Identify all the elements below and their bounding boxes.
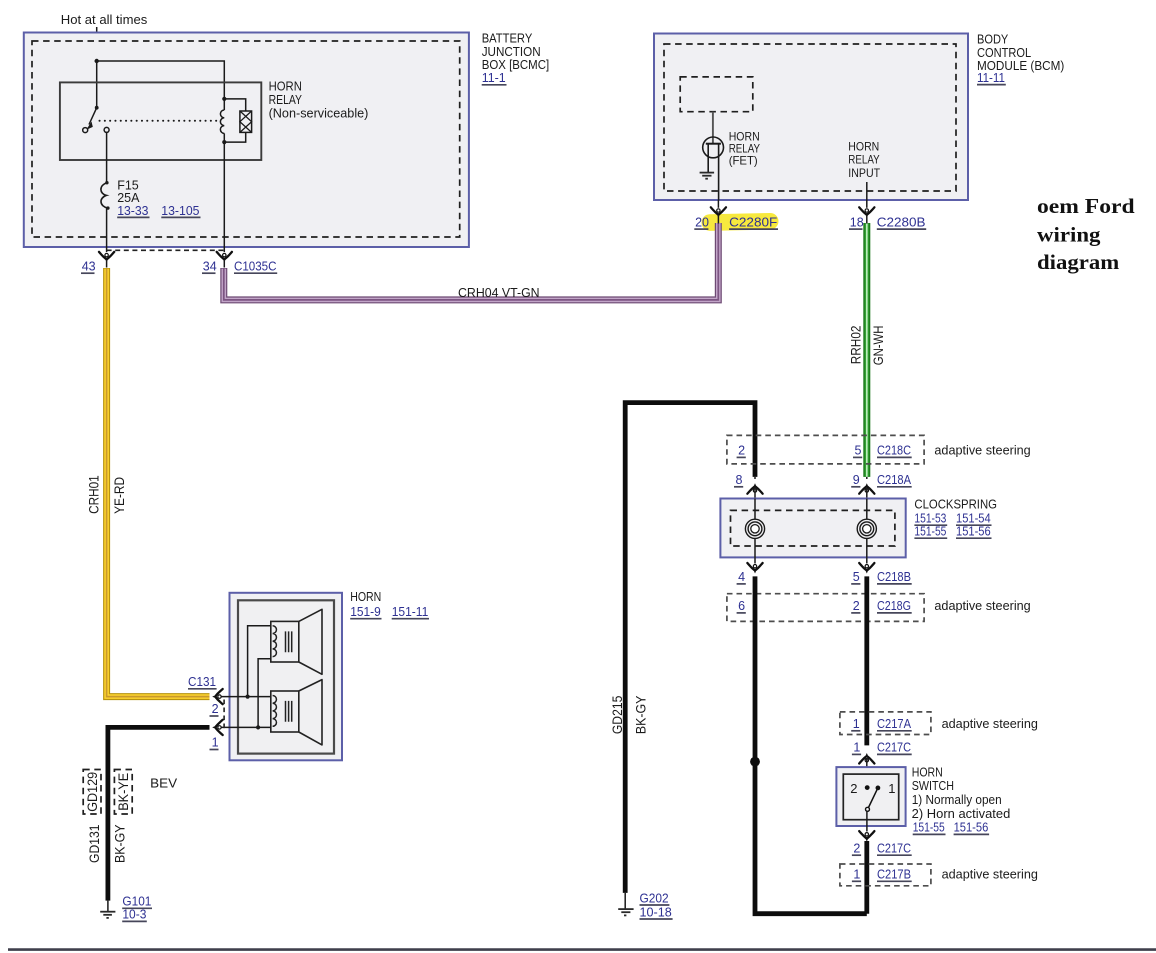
wire RRH02 GN-WH (green) BCM pin 18 to clockspring pin 9 <box>863 223 870 477</box>
battery junction box inner dashed border <box>32 41 460 237</box>
svg-text:RELAY: RELAY <box>269 93 303 107</box>
svg-text:1: 1 <box>853 741 860 755</box>
svg-text:HORN: HORN <box>848 139 879 153</box>
horn switch outer box <box>836 767 905 826</box>
pin label 43 <box>81 260 96 274</box>
pin label 2 (C218G) <box>851 599 860 613</box>
pin label 5 (C218B) <box>851 570 860 584</box>
label CLOCKSPRING with links <box>914 498 997 539</box>
pin label 2 (C218C) <box>737 444 746 458</box>
node junction dot on feed <box>95 59 99 63</box>
pin label 1 (C217C top) <box>852 741 861 755</box>
wire label CRH01 <box>87 475 102 513</box>
label adaptive steering (C218C) <box>934 444 1030 458</box>
svg-text:(FET): (FET) <box>729 154 758 168</box>
connector label C217C top <box>877 741 912 755</box>
splice GD129 dashed box <box>83 770 101 815</box>
pin label 6 <box>737 599 746 613</box>
wire: switch output down to fuse <box>106 132 108 182</box>
relay switch lever with arrowhead <box>86 108 97 130</box>
connector C218C adaptive steering dashed box <box>727 435 924 464</box>
label: HORN SWITCH description <box>912 765 1011 834</box>
label: HORN RELAY INPUT <box>848 139 880 179</box>
svg-text:10-18: 10-18 <box>640 905 672 919</box>
horn switch pin 2 arrow <box>859 831 874 842</box>
ground (FET source) inside BCM <box>700 173 715 179</box>
pin label 9 <box>851 473 860 487</box>
relay switch pivot dot <box>95 106 99 110</box>
svg-text:C1035C: C1035C <box>234 260 277 274</box>
svg-text:GD129: GD129 <box>85 772 100 812</box>
pin 18 arrow <box>859 207 874 223</box>
svg-text:2: 2 <box>853 841 860 855</box>
ground G101 symbol <box>100 901 115 918</box>
svg-text:G101: G101 <box>122 895 151 909</box>
pin 34 arrow <box>217 252 232 268</box>
horn pin 1 arrow <box>212 720 223 735</box>
wire label CRH04 VT-GN <box>458 286 540 300</box>
wire CRH04 VT-GN (violet) pin 34 to BCM pin 20 <box>224 223 719 300</box>
wire: coil to BJB bottom pin 34 <box>223 142 225 252</box>
ground label G101 10-3 <box>122 895 152 922</box>
connector label C217B <box>877 867 912 881</box>
pin 20 arrow <box>711 207 726 223</box>
label: BODY CONTROL MODULE (BCM) 11-11 <box>977 33 1064 85</box>
svg-text:Hot at all times: Hot at all times <box>61 13 148 27</box>
svg-text:C218C: C218C <box>877 444 911 458</box>
svg-text:BODY: BODY <box>977 33 1009 47</box>
svg-text:BK-GY: BK-GY <box>112 824 127 863</box>
svg-text:6: 6 <box>738 599 745 613</box>
connector C217A adaptive steering dashed box <box>840 712 931 735</box>
svg-text:C218B: C218B <box>877 570 911 584</box>
relay switch output contact <box>104 127 109 132</box>
svg-text:1: 1 <box>888 781 895 796</box>
pin label 18 <box>849 215 864 229</box>
svg-text:151-55: 151-55 <box>913 821 945 835</box>
wire GD215 BK-GY top loop (black) <box>625 403 755 893</box>
svg-text:20: 20 <box>695 215 709 229</box>
svg-text:9: 9 <box>853 473 860 487</box>
svg-text:151-56: 151-56 <box>954 821 989 835</box>
wire: switch pin 2 stub to C217C <box>864 841 869 914</box>
horn switch SW1 contacts and lever <box>865 785 881 811</box>
horn switch pin 1 arrow <box>859 753 874 788</box>
svg-text:BK-YE: BK-YE <box>116 773 131 811</box>
svg-text:INPUT: INPUT <box>848 166 880 180</box>
connector C217B adaptive steering dashed box <box>840 864 931 886</box>
svg-text:BOX [BCMC]: BOX [BCMC] <box>482 58 550 72</box>
connector label C217C bottom <box>877 841 912 855</box>
ground G202 symbol <box>618 893 633 916</box>
horn switch inner box <box>843 774 898 820</box>
relay actuation dotted link <box>100 120 218 122</box>
svg-text:diagram: diagram <box>1037 250 1119 274</box>
svg-text:adaptive steering: adaptive steering <box>942 867 1038 881</box>
ground label G202 10-18 <box>640 891 673 919</box>
label: BATTERY JUNCTION BOX [BCMC] 11-1 <box>482 32 550 86</box>
relay coil L1 <box>220 97 226 144</box>
connector label C2280B <box>877 215 926 229</box>
svg-text:C2280F: C2280F <box>729 215 778 229</box>
svg-text:151-55: 151-55 <box>914 524 946 538</box>
wire: feed to relay coil branch <box>97 61 225 99</box>
wire: fuse to BJB bottom pin 43 <box>106 208 108 252</box>
svg-text:adaptive steering: adaptive steering <box>934 444 1030 458</box>
svg-text:4: 4 <box>738 570 745 584</box>
svg-text:RRH02: RRH02 <box>849 326 864 365</box>
switch terminal label 1 <box>888 781 895 796</box>
clockspring outer box <box>720 499 905 558</box>
connector label C217A <box>877 717 912 731</box>
svg-text:C217C: C217C <box>877 741 911 755</box>
svg-text:C217A: C217A <box>877 717 912 731</box>
clockspring pin 4 arrow <box>747 557 762 573</box>
horn assembly inner box <box>238 600 334 753</box>
svg-text:(Non-serviceable): (Non-serviceable) <box>269 107 369 121</box>
connector label C218B <box>877 570 912 584</box>
svg-text:2: 2 <box>850 781 857 796</box>
horn H2 (bottom) cone <box>299 680 322 745</box>
transistor HORN RELAY FET U1 <box>703 137 724 200</box>
wire CRH01 YE-RD (yellow) pin 43 to horn pin 2 <box>107 268 210 697</box>
svg-text:HORN: HORN <box>912 765 943 779</box>
wire label RRH02 <box>849 326 864 365</box>
svg-text:1: 1 <box>853 867 860 881</box>
label: HORN 151-9 151-11 <box>350 590 429 619</box>
horn H1 (top) cone <box>299 609 322 674</box>
wire label GD215 <box>610 696 625 735</box>
splice BK-YE dashed box <box>114 770 132 815</box>
relay suppressor resistor <box>224 99 251 142</box>
connector C218G adaptive steering dashed box <box>727 594 924 622</box>
svg-text:2) Horn activated: 2) Horn activated <box>912 807 1011 821</box>
svg-text:wiring: wiring <box>1037 223 1101 247</box>
svg-text:BK-GY: BK-GY <box>634 696 649 735</box>
body control module outer box <box>654 34 968 201</box>
svg-text:C217B: C217B <box>877 867 911 881</box>
wire: clockspring pin 5 down to horn switch (black) <box>864 576 869 745</box>
svg-text:151-56: 151-56 <box>956 524 991 538</box>
svg-text:18: 18 <box>850 215 864 229</box>
svg-text:G202: G202 <box>640 891 669 905</box>
svg-text:8: 8 <box>736 473 743 487</box>
wire through clockspring left <box>754 499 756 558</box>
svg-text:C131: C131 <box>188 675 216 689</box>
junction dot on pin 2 wire <box>246 695 250 699</box>
connector label C1035C <box>234 260 277 274</box>
wire GD131 BK-GY horn pin 1 to ground G101 (black) <box>108 727 210 900</box>
pin label 1 (C217A) <box>851 717 860 731</box>
svg-text:HORN: HORN <box>350 590 381 604</box>
wire label BK-GY <box>634 696 649 735</box>
svg-text:C2280B: C2280B <box>877 215 926 229</box>
splice GD129 label <box>85 772 100 812</box>
connector label C218C <box>877 444 912 458</box>
junction dot on pin 1 wire <box>256 725 260 729</box>
svg-text:RELAY: RELAY <box>848 153 879 167</box>
svg-text:2: 2 <box>738 444 745 458</box>
pin label 5 (C218C) <box>853 444 862 458</box>
horn pin 2 label <box>210 702 219 716</box>
svg-text:151-53: 151-53 <box>914 511 946 525</box>
svg-text:JUNCTION: JUNCTION <box>482 45 541 59</box>
horn H1 (top) coil box <box>271 621 299 662</box>
label adaptive steering (C217B) <box>942 867 1038 881</box>
svg-text:2: 2 <box>212 702 219 716</box>
label: HORN RELAY (Non-serviceable) <box>269 80 369 121</box>
label: F15 25A 13-33 13-105 <box>117 178 200 217</box>
relay switch fixed contact left <box>83 128 88 133</box>
wire: horn relay input to pin 18 <box>866 182 868 200</box>
BCM internal dashed block <box>680 77 753 112</box>
connector label C218G <box>877 599 912 613</box>
svg-text:151-9: 151-9 <box>350 605 381 619</box>
wire label GD131 <box>87 824 102 863</box>
wire: horn pin 2 internal feed <box>221 696 271 698</box>
pin 43 arrow <box>99 252 114 268</box>
pin label 1 (C217B) <box>852 867 861 881</box>
label adaptive steering (C217A) <box>942 717 1038 731</box>
wire label GN-WH <box>871 326 886 366</box>
svg-text:adaptive steering: adaptive steering <box>934 599 1030 613</box>
switch terminal label 2 <box>850 781 857 796</box>
svg-text:5: 5 <box>853 570 860 584</box>
clockspring pin 8 arrow <box>747 477 762 499</box>
horn assembly outer box <box>230 593 343 761</box>
svg-text:11-11: 11-11 <box>977 71 1005 85</box>
label adaptive steering (C218G) <box>934 599 1030 613</box>
svg-text:GD131: GD131 <box>87 824 102 863</box>
svg-text:151-11: 151-11 <box>392 605 429 619</box>
wire: horn pin 1 internal feed <box>221 726 271 728</box>
svg-text:C218G: C218G <box>877 599 911 613</box>
wire: BCM pin 18 stub <box>866 200 868 208</box>
title: oem Ford wiring diagram <box>1037 194 1135 274</box>
svg-text:C218A: C218A <box>877 473 912 487</box>
svg-text:1: 1 <box>853 717 860 731</box>
clockspring pin 5 arrow <box>859 557 874 573</box>
wire: top horn terminal B link <box>258 659 271 728</box>
wire: FET drain to pin 20 <box>717 200 719 208</box>
svg-text:13-33: 13-33 <box>117 204 148 218</box>
connector label C2280F <box>729 215 778 229</box>
svg-text:GN-WH: GN-WH <box>871 326 886 366</box>
svg-text:2: 2 <box>853 599 860 613</box>
svg-text:10-3: 10-3 <box>122 908 146 922</box>
body control module inner dashed border <box>664 44 956 191</box>
node: Hot at all times label <box>61 13 148 27</box>
clockspring inner dashed border <box>731 510 895 546</box>
svg-text:CRH04 VT-GN: CRH04 VT-GN <box>458 286 540 300</box>
svg-text:43: 43 <box>82 260 96 274</box>
highlight marker over 20 C2280F <box>701 213 778 231</box>
footer separator line <box>8 948 1156 951</box>
svg-text:BATTERY: BATTERY <box>482 32 533 46</box>
horn relay box <box>60 82 261 160</box>
clockspring coil symbol left <box>745 519 764 538</box>
svg-text:HORN: HORN <box>269 80 302 94</box>
pin label 34 <box>202 260 217 274</box>
wire: gate feed to FET <box>712 112 714 144</box>
svg-text:BEV: BEV <box>150 777 178 791</box>
clockspring pin 9 arrow <box>859 477 874 499</box>
horn pin 2 arrow <box>212 689 223 704</box>
svg-text:SWITCH: SWITCH <box>912 779 954 793</box>
horn pin 1 label <box>210 736 219 750</box>
svg-text:11-1: 11-1 <box>482 71 506 85</box>
battery junction box outer <box>24 33 469 248</box>
wire label BK-GY <box>112 824 127 863</box>
fuse F15 <box>101 181 110 210</box>
svg-text:1) Normally open: 1) Normally open <box>912 793 1002 807</box>
svg-text:34: 34 <box>203 260 217 274</box>
horn H2 (bottom) coil box <box>271 691 299 732</box>
wire: switch moving contact down <box>866 811 868 831</box>
connector label C218A <box>877 473 912 487</box>
wire: top horn terminal A link <box>248 626 271 697</box>
wire: feed down to relay switch <box>96 61 98 108</box>
splice junction dot on pin 4 wire <box>750 757 760 767</box>
splice BK-YE label <box>116 773 131 811</box>
svg-text:YE-RD: YE-RD <box>112 477 127 514</box>
label: HORN RELAY (FET) <box>729 130 760 168</box>
pin label 8 <box>734 473 743 487</box>
clockspring coil symbol right <box>857 519 876 538</box>
svg-text:GD215: GD215 <box>610 696 625 735</box>
svg-text:5: 5 <box>855 444 862 458</box>
pin label 2 (C217C bottom) <box>852 841 861 855</box>
connector C131 dashed span <box>223 700 225 731</box>
node BEV label <box>150 777 178 791</box>
wire label YE-RD <box>112 477 127 514</box>
svg-text:CLOCKSPRING: CLOCKSPRING <box>914 498 997 512</box>
svg-text:13-105: 13-105 <box>161 204 199 218</box>
svg-text:1: 1 <box>212 736 219 750</box>
svg-text:adaptive steering: adaptive steering <box>942 717 1038 731</box>
wire through clockspring right <box>866 499 868 558</box>
svg-text:151-54: 151-54 <box>956 511 991 525</box>
wire: battery feed from Hot at all times into BJB <box>96 27 98 61</box>
connector C1035C dashed span <box>107 249 225 251</box>
svg-text:C217C: C217C <box>877 841 911 855</box>
svg-text:oem Ford: oem Ford <box>1037 194 1135 218</box>
svg-text:CRH01: CRH01 <box>87 475 102 513</box>
pin label 4 <box>737 570 746 584</box>
connector C131 label <box>188 675 217 689</box>
svg-text:CONTROL: CONTROL <box>977 46 1031 60</box>
wire: clockspring pin 4 down to bottom loop (black) <box>755 576 867 913</box>
pin label 20 <box>694 215 709 229</box>
